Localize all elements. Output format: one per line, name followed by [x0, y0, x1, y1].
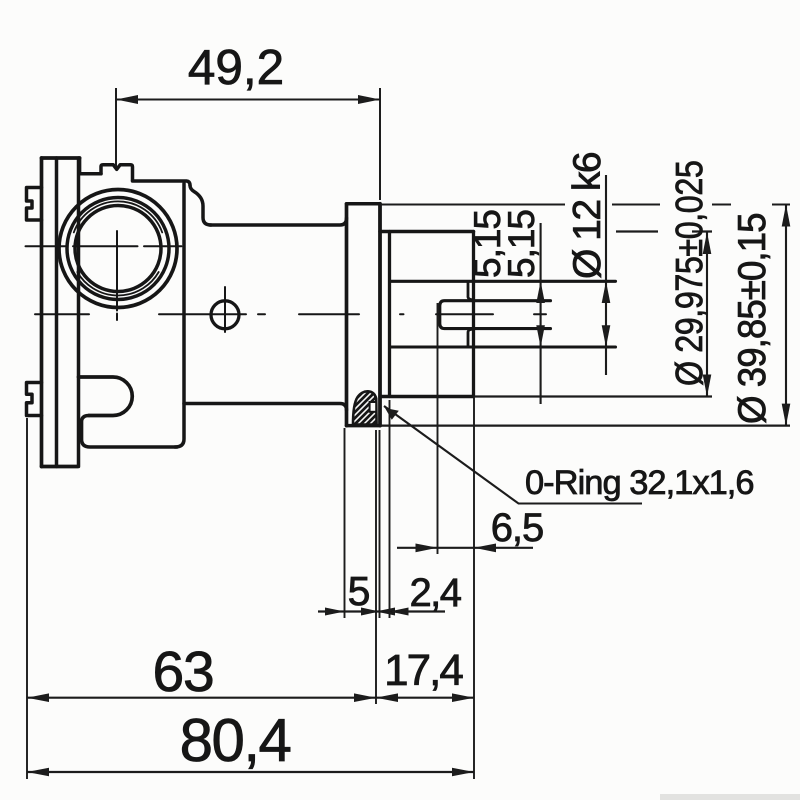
mounting flange right face — [378, 204, 382, 426]
dimension line diameter 12 k6 — [605, 175, 607, 375]
svg-text:0-Ring 32,1x1,6: 0-Ring 32,1x1,6 — [525, 464, 754, 502]
svg-text:49,2: 49,2 — [188, 40, 284, 95]
shaft top line — [391, 280, 616, 283]
flange bottom mounting tab with notch — [27, 383, 42, 416]
body step curve to bearing housing top — [190, 185, 211, 225]
svg-text:Ø 29,975±0,025: Ø 29,975±0,025 — [669, 161, 711, 386]
dimension line 5,15 pair vertical — [540, 223, 542, 404]
port counterbore circle — [67, 198, 169, 300]
svg-text:17,4: 17,4 — [384, 646, 463, 695]
circlip groove upper — [468, 282, 471, 300]
mounting flange bottom edge — [347, 424, 381, 428]
left flange plate outline — [42, 158, 80, 467]
svg-text:5: 5 — [348, 568, 371, 614]
bearing housing bottom edge — [184, 404, 347, 411]
bearing hub end face — [472, 232, 475, 397]
svg-text:80,4: 80,4 — [180, 707, 291, 774]
body top step at flange — [80, 158, 101, 174]
dimension 6,5 — [397, 547, 533, 549]
hub top edge extension dashes — [616, 230, 658, 232]
mounting flange top edge — [347, 202, 381, 206]
o-ring hatched cross-section — [330, 385, 412, 425]
svg-text:2,4: 2,4 — [409, 571, 461, 615]
shaft keyway slot — [440, 301, 551, 329]
bearing housing top edge — [210, 218, 347, 225]
flange top edge extension segments — [380, 204, 790, 206]
svg-text:Ø 39,85±0,15: Ø 39,85±0,15 — [731, 213, 774, 424]
port vertical centerline — [116, 231, 118, 320]
body top edge — [133, 181, 191, 185]
port bore circle — [75, 206, 161, 292]
port outer circle — [59, 190, 177, 308]
body front face edge line — [175, 184, 184, 448]
cam screw hole — [211, 301, 239, 329]
mounting flange left face — [345, 204, 349, 426]
dimension 5 and 2,4 — [318, 610, 445, 612]
pilot collar face line — [388, 232, 391, 397]
svg-text:63: 63 — [152, 640, 213, 704]
shaft bottom line — [391, 345, 616, 348]
body rear face line behind flange — [77, 158, 81, 467]
port horizontal centerline — [26, 245, 182, 247]
body bottom edge — [82, 416, 178, 448]
dimension 63 and 17,4 — [27, 697, 474, 699]
flange bottom edge extension — [380, 425, 790, 427]
dimension extension lines bottom — [27, 303, 474, 779]
svg-text:Ø 12 k6: Ø 12 k6 — [566, 153, 609, 279]
bearing hub bottom edge — [380, 395, 474, 399]
cam screw hole vertical centerline — [224, 287, 226, 332]
top boss with v-notch — [101, 165, 133, 181]
o-ring groove white notch — [370, 402, 377, 412]
hub bottom edge extension — [474, 395, 713, 397]
circlip groove lower — [468, 330, 471, 346]
flange top mounting tab with notch — [27, 188, 42, 221]
dimension 80,4 — [27, 771, 474, 773]
port thread circle — [74, 201, 162, 232]
svg-text:5,15: 5,15 — [501, 210, 542, 278]
bottom finger boss with round end — [79, 377, 133, 416]
dimension line diameter 39,85 — [785, 205, 787, 426]
shaft axis centerline — [35, 313, 546, 315]
dimension 49,2 — [116, 88, 380, 200]
svg-text:6,5: 6,5 — [491, 506, 544, 550]
dimension line diameter 29,975 — [706, 232, 708, 397]
o-ring leader line with arrow — [384, 406, 642, 504]
bearing hub top edge — [380, 230, 474, 234]
